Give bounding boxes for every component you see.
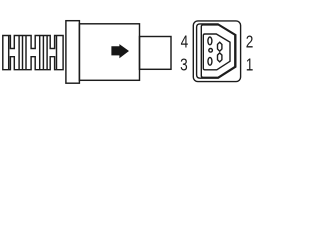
socket recess rim outer line <box>197 24 236 78</box>
pin 2 hexagon <box>218 42 222 51</box>
pin number 3 <box>180 56 188 75</box>
pin 4 oval <box>208 37 212 45</box>
insertion arrow <box>111 44 129 58</box>
pin 1 hexagon <box>218 53 222 62</box>
bellows groove line a <box>8 36 10 70</box>
strain relief bellows outline <box>3 36 63 70</box>
connector flange <box>66 21 80 83</box>
bellows groove line c3 <box>46 36 48 70</box>
svg-text:4: 4 <box>181 33 189 52</box>
connector body <box>79 24 139 81</box>
bellows groove line c2 <box>42 36 44 70</box>
bellows groove line b3 <box>25 36 27 70</box>
pin number 2 <box>246 33 254 52</box>
bellows groove line b1 <box>18 36 20 70</box>
pin 3 oval <box>208 57 212 65</box>
svg-text:2: 2 <box>246 33 254 52</box>
bellows groove line b2 <box>22 36 24 70</box>
key circle <box>209 49 213 53</box>
pin number 1 <box>246 56 254 75</box>
socket outer shell outline <box>193 21 240 82</box>
svg-text:1: 1 <box>246 56 254 75</box>
connector tip <box>140 37 172 70</box>
socket pin island D-shape <box>203 34 230 70</box>
bellows groove line d <box>56 36 58 70</box>
pin number 4 <box>181 33 189 52</box>
socket recess D-shape <box>201 25 235 77</box>
svg-text:3: 3 <box>180 56 188 75</box>
bellows groove line c1 <box>39 36 41 70</box>
